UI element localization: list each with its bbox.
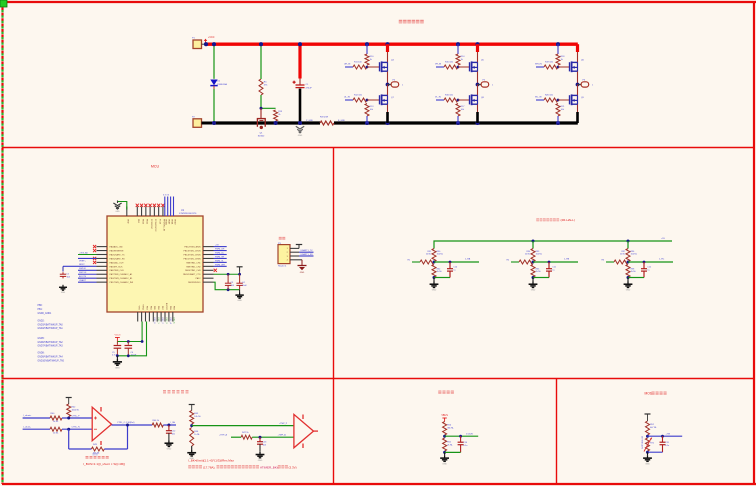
wire VDD rail pin (blue) [173,197,175,217]
svg-text:NRST: NRST [79,264,85,266]
svg-text:OSC_2: OSC_2 [161,317,163,323]
svg-text:PB1/TIM3_CH4/ADC_IN9: PB1/TIM3_CH4/ADC_IN9 [110,281,134,284]
wire vbus cap return (green) [445,451,461,453]
wire hall1 cap return (green) [434,277,450,279]
svg-text:Header 4: Header 4 [278,265,287,267]
wire +TW out (blue) [648,435,683,437]
svg-text:+TW: +TW [666,433,670,435]
resistor R33 hall pullup [531,249,535,262]
svg-text:VCC3: VCC3 [114,334,121,336]
capacitor C12 output filter [168,425,170,431]
transistor Q8 low-side [470,94,478,105]
svg-text:GND: GND [61,292,66,294]
wire VDD decouple top (green) [214,273,240,275]
wire hall3 cap return (green) [628,277,644,279]
node leg2 bottom gate [457,99,460,102]
wire leg2 upper drain (maroon) [477,52,479,85]
svg-text:10k NL: 10k NL [536,254,543,256]
svg-text:1u: 1u [647,269,649,271]
resistor R11 gate series top [353,65,367,69]
wire feedback right (blue) [104,448,127,450]
svg-text:PB11: PB11 [146,219,148,225]
svg-text:VDD1: VDD1 [170,219,172,225]
svg-text:PB13/TIM1_CH1N: PB13/TIM1_CH1N [184,250,201,252]
capacitor C11 hall filter [548,262,550,269]
wire diode branch upper (green) [213,44,215,79]
svg-text:R20 100: R20 100 [545,95,554,97]
resistor R10 gate pullup [365,54,369,65]
svg-text:I_shunt+: I_shunt+ [23,414,33,417]
svg-text:GND: GND [167,449,172,451]
no-ERC marker top pin 3 [140,204,143,207]
diode D1 (TVS) [210,80,217,90]
svg-text:R11 100: R11 100 [354,62,363,64]
power bar symbol temp [645,414,651,419]
wire right pin 1 (blue) [214,246,227,248]
node leg2 top gate [457,66,460,69]
section divider horizontal upper [2,147,754,149]
ground symbol reset cap [59,285,67,290]
ground symbol hall2 [529,282,538,288]
net stub I_shunt+ (blue) [23,417,50,419]
svg-text:VREF+: VREF+ [79,260,87,262]
svg-text:1u: 1u [552,269,554,271]
svg-text:CTRL_N: CTRL_N [72,427,81,429]
wire bus cap lower (thick black) [299,89,302,123]
wire GND bus left (thick black) [214,121,320,124]
junction on GND bus [556,121,560,125]
net stub I_shunt- (blue) [23,428,50,430]
IC U1 bottom pin 3 [145,312,147,322]
wire VDD rail pin (blue) [164,197,166,217]
svg-text:VBAT: VBAT [168,219,171,225]
IC U1 top pin 7 [158,207,160,217]
svg-text:PA1/RESERVE: PA1/RESERVE [110,249,125,252]
node temp mid [646,435,649,438]
svg-text:OSC_3: OSC_3 [165,317,167,323]
origin marker green square [0,0,7,7]
wire USART1_TX (blue) [299,251,314,253]
svg-text:+TMP_A: +TMP_A [278,433,287,436]
svg-text:OSC_5: OSC_5 [173,317,175,323]
ground symbol C13 [256,452,265,458]
net stub PWM_UL (blue) [345,99,353,101]
wire temp gnd stub [647,452,649,455]
svg-text:2k NL: 2k NL [447,444,453,446]
wire leg2 drain stub (thick red) [476,44,479,52]
wire SWCLK (blue) [78,273,97,275]
node vbus mid [443,435,446,438]
junction on VCC bus [298,42,302,46]
resistor R43 feedback [91,447,104,451]
wire V_BUS out (green) [445,435,479,437]
svg-text:2k NL: 2k NL [426,254,432,256]
svg-text:I_BUS=1:1([I_shunt × S(i)×36)]: I_BUS=1:1([I_shunt × S(i)×36)] [83,462,125,466]
outer frame top border [0,1,756,3]
junction on GND bus [212,121,216,125]
IC U1 left pin 10 [97,281,108,283]
svg-text:I_SH: I_SH [170,422,176,424]
svg-text:VDDA: VDDA [165,219,168,225]
transistor Q5 high-side [470,61,478,72]
resistor R30 hall pullup [432,249,436,262]
node leg1 bottom gate [366,99,369,102]
node leg3 top gate [557,66,560,69]
net stub +TRP_A (green) [231,436,241,438]
resistor R12 gate series bottom [353,98,367,102]
svg-text:VL_IN: VL_IN [435,97,441,99]
resistor R41 input- [50,427,62,431]
junction on VCC bus [556,42,560,46]
ground symbol top-left of U1 (chevrons) [113,201,121,210]
svg-text:R44 1k: R44 1k [153,420,161,422]
svg-text:470uF: 470uF [306,87,313,89]
wire GND bus right (thick black) [334,121,578,124]
resistor R51 vbus bottom [443,438,447,451]
svg-text:PWM_UH: PWM_UH [215,248,225,250]
IC U1 left pin 7 [97,269,108,271]
svg-text:10k NL: 10k NL [437,254,444,256]
IC U1 right pin 4 [203,257,214,259]
connector P3 pin 4 [290,259,299,261]
svg-text:USART: USART [79,279,87,282]
node hall3 bottom [627,276,630,279]
connector J2 phase pin [478,82,489,87]
junction on VCC bus [385,42,389,46]
wire gate to fet Q5 [458,66,470,68]
wire left pin4 (blue) [78,257,97,259]
wire USART1_RX (blue) [299,255,314,257]
IC U1 left pin 5 [97,261,108,263]
svg-text:PB0/TIM3_CH3/ADC_B1: PB0/TIM3_CH3/ADC_B1 [110,277,134,280]
svg-text:GND: GND [626,290,631,292]
svg-text:SI2302: SI2302 [258,135,265,137]
wire gate to fet Q9 [558,99,570,101]
svg-text:PB15/TIM1_CH3N: PB15/TIM1_CH3N [184,258,201,260]
node hall2 bottom [532,276,535,279]
IC U1 right pin 3 [203,254,214,256]
svg-text:+5V: +5V [215,245,219,247]
no-ERC marker top pin 2 [136,204,139,207]
wire R2 to bus [275,121,277,123]
wire gate to fet Q4 [367,66,380,68]
resistor R36 hall pullup [626,249,630,262]
node comp filter [259,436,262,439]
svg-text:PC14/OSC32: PC14/OSC32 [154,219,156,232]
svg-text:(17.78A),: (17.78A), [203,465,216,469]
node hall3 mid [627,261,630,264]
resistor R35 hall pulldown [531,265,535,278]
ground symbol vbus [440,455,449,461]
no-ERC marker left pin 5 [93,261,96,264]
svg-text:PF0/OSC_IN: PF0/OSC_IN [163,219,165,231]
IC U1 right pin 1 [203,246,214,248]
svg-text:PA12: PA12 [196,277,202,280]
svg-text:36k NL: 36k NL [447,427,454,429]
wire divider out (green) [192,425,294,427]
IC U1 left pin 3 [97,254,108,256]
resistor R16 gate series bottom [444,98,458,102]
svg-text:BOOT0: BOOT0 [165,303,167,311]
IC U1 right pin 2 [203,250,214,252]
resistor R52 temp pullup [646,421,650,435]
wire right pin 5 (blue) [214,261,227,263]
connector J1 phase pin [388,82,399,87]
IC U1 top pin 3 [141,207,143,217]
svg-text:PA10/TIM1_CH3: PA10/TIM1_CH3 [185,269,201,272]
wire pulldown to bus [557,116,559,123]
capacitor C3 [227,274,229,281]
svg-text:10k NL: 10k NL [631,254,638,256]
port P1 pin wire [202,43,207,45]
junction on VCC bus [259,42,263,46]
svg-text:R47 1k: R47 1k [242,432,250,434]
resistor R50 vbus top [443,422,447,436]
wire bar to R52 [647,419,649,422]
title hall sensor section (光电对管接口) [536,219,539,222]
capacitor C6 [127,342,129,345]
wire bar to R42 [68,402,70,404]
wire VDD pin to gnd (green) [118,202,127,210]
svg-text:2k NL: 2k NL [525,254,531,256]
svg-text:PA8/TIM1_CH1: PA8/TIM1_CH1 [186,261,201,264]
wire bar to rail [239,267,241,274]
svg-text:PWM_VH: PWM_VH [215,256,225,258]
node leg1 phase output [386,83,390,87]
wire right pin 4 (blue) [214,257,227,259]
junction hall3 cap top [643,261,646,264]
power bar symbol decouple [237,267,243,272]
svg-text:UL_IN: UL_IN [344,97,350,99]
connector J3 phase pin [578,82,589,87]
svg-text:R16 100: R16 100 [445,95,454,97]
connector P3 pin 3 [290,255,299,257]
svg-text:1k NL: 1k NL [536,271,542,273]
transistor Q7 low-side [380,94,388,105]
ground symbol C12 [164,441,173,447]
svg-text:PA11/USART_CTS: PA11/USART_CTS [183,273,201,276]
resistor R40 input+ [50,416,62,420]
IC U1 bottom pin 5 [152,312,154,322]
net stub PWM_WH (blue) [536,66,544,68]
IC U1 top pin 8 [162,207,164,217]
IC U1 bottom pin 10 [172,312,174,322]
junction crystal a [127,340,130,343]
svg-text:GND9/VBAT/WKUP_TA4: GND9/VBAT/WKUP_TA4 [38,355,64,358]
wire feedback up (blue) [127,425,129,449]
svg-text:USART1_TX: USART1_TX [301,249,314,252]
wire feedback down (blue) [68,429,70,449]
svg-text:PB1:: PB1: [38,309,43,311]
no-ERC marker right pin 7 [214,269,217,272]
junction crystal b [141,340,144,343]
capacitor C2 reset [60,272,66,278]
connector P3 pin 2 [290,251,299,253]
svg-text:PA9/TIM1_CH2: PA9/TIM1_CH2 [186,265,201,268]
wire NRST cap branch [62,266,64,271]
annotation opamp gain line1 (运放采样电路) [86,456,89,459]
IC U1 bottom pin 2 [141,312,143,322]
resistor R13 gate pulldown [365,104,369,117]
svg-text:P_GND: P_GND [306,120,313,122]
transistor Q6 high-side [570,61,578,72]
junction on VCC bus [204,42,208,46]
svg-text:GND: GND [300,272,305,274]
junction on GND bus [385,121,389,125]
wire feedback bottom (blue) [69,448,92,450]
wire leg3 gate pullup (blue) [557,44,559,54]
node leg3 bottom gate [557,99,560,102]
wire crystal rail bottom (green) [117,322,146,356]
wire divider gnd stub [191,446,193,450]
svg-text:100k NL: 100k NL [72,410,81,412]
op-amp U3 comparator [294,414,318,448]
svg-text:VDD2: VDD2 [173,219,175,225]
svg-text:R19 100: R19 100 [545,62,554,64]
wire leg2 gate pullup (blue) [457,44,459,54]
outer frame right border [753,2,755,485]
resistor R17 gate pulldown [456,104,460,117]
node leg3 phase output [576,83,580,87]
junction on VCC bus [212,42,216,46]
node hall1 bottom [433,276,436,279]
net stub PWM_UH (blue) [345,66,353,68]
svg-text:+3V3_AD: +3V3_AD [79,251,88,254]
wire VDD rail pin (blue) [170,197,172,217]
resistor R32 hall pulldown [432,265,436,278]
resistor R34 hall series [519,260,533,264]
junction on VCC bus [475,42,479,46]
svg-text:GND: GND [298,135,303,137]
svg-text:BOOT0: BOOT0 [79,276,87,278]
net stub PWM_WL (blue) [536,99,544,101]
wire opamp output (blue) [112,424,153,426]
no-ERC marker left pin 1 [93,245,96,248]
svg-text:STM32F030C8T6: STM32F030C8T6 [179,213,197,215]
wire hall3 pullup top (green) [627,241,629,249]
wire +5V bus (green) [434,241,672,249]
svg-text:PA3/USART_RX: PA3/USART_RX [110,257,126,260]
svg-text:WL_IN: WL_IN [535,97,542,99]
IC U1 left pin 4 [97,257,108,259]
wire temp cap return (blue) [648,451,663,453]
IC U1 bottom pin 9 [168,312,170,322]
svg-text:PA2/USART_TX: PA2/USART_TX [110,253,126,256]
capacitor C14 vbus [460,436,462,442]
IC U1 bottom pin 4 [148,312,150,322]
IC U1 right pin 6 [203,265,214,267]
svg-text:1u: 1u [453,269,455,271]
svg-text:GND: GND [237,300,242,302]
svg-text:OSC_0: OSC_0 [153,317,155,323]
svg-text:PA5/SPI_SCK: PA5/SPI_SCK [110,265,124,268]
svg-text:GND: GND [258,460,263,462]
title current sense section (母线电流检测) [163,390,166,393]
node hall2 mid [532,261,535,264]
svg-text:WH_IN: WH_IN [535,64,542,66]
no-ERC marker top pin 4 [144,204,147,207]
junction on GND bus [475,121,479,125]
svg-text:R12 100: R12 100 [354,95,363,97]
net label above formula [93,453,95,455]
IC U1 right pin 10 [203,281,214,283]
svg-text:1_HC: 1_HC [659,259,665,261]
net stub hall2 input (green) [511,261,519,263]
wire pulldown to bus [457,116,459,123]
transistor Q4 high-side [380,61,388,72]
title bus voltage section (母线电压) [438,391,441,394]
svg-text:R15 100: R15 100 [445,62,454,64]
junction decouple c [227,288,230,291]
junction crystal c [116,354,119,357]
svg-text:GND3/VBAT/WKUP_TA0: GND3/VBAT/WKUP_TA0 [38,323,64,326]
wire leg3 lower drain (maroon) [577,85,579,113]
IC U1 right pin 9 [203,277,214,279]
node hall1 mid [433,261,436,264]
wire hall2 cap return (green) [533,277,549,279]
svg-text:I_shunt-: I_shunt- [23,425,32,428]
resistor R14 gate pullup [456,54,460,65]
resistor R46 divider bottom [190,428,194,447]
no-ERC marker top pin 7 [157,204,160,207]
ground symbol bus cap (chevrons) [296,126,304,133]
wire hall3 gnd stub [627,278,629,282]
svg-text:10uF: 10uF [242,285,247,287]
junction decouple b [238,273,241,276]
resistor R15 gate series top [444,65,458,69]
ground symbol crystal [116,356,118,359]
IC U1 top pin 6 [153,207,155,217]
svg-text:2k NL: 2k NL [620,254,626,256]
resistor R44 output series [152,423,163,427]
svg-text:VDD: VDD [127,219,129,224]
svg-text:1k NL: 1k NL [631,271,637,273]
svg-text:1_HB: 1_HB [564,259,570,261]
wire output to node (blue) [163,424,176,426]
section divider horizontal lower [2,378,754,380]
svg-text:OSC_1: OSC_1 [157,317,159,323]
resistor R2 [274,110,278,121]
ground symbol decouple [239,290,241,293]
svg-text:GND: GND [645,463,650,465]
ground symbol serial (dark red) [299,259,302,261]
title power drive section (功率驱动电路) [399,20,403,24]
IC U1 bottom pin 6 [156,312,158,322]
junction temp cap top [661,435,664,438]
wire +3V3_AD (green) [78,254,97,256]
wire VCC bus (thick red) [206,43,578,46]
svg-text:4k7 NL: 4k7 NL [650,427,657,429]
capacitor C13 comp filter [259,437,261,442]
resistor R45 divider top [190,411,194,425]
net stub hall1 input (green) [412,261,420,263]
ground symbol divider [187,450,196,456]
resistor R21 gate pulldown [556,104,560,117]
wire pin VSS down (green) [141,322,143,342]
svg-text:P6KE18A: P6KE18A [217,83,227,86]
node R2 top [260,107,263,110]
IC U1 top pin 4 [145,207,147,217]
resistor R18 gate pullup [556,54,560,65]
resistor R3 shunt 5mR [320,121,334,125]
svg-text:PB12/TIM1_BKIN: PB12/TIM1_BKIN [184,247,201,249]
wire gate to fet Q6 [558,66,570,68]
svg-text:PA0/ADC_IN0: PA0/ADC_IN0 [110,246,124,249]
wire leg3 source stub (thick black) [576,112,579,123]
svg-text:GND10/VBAT/WKUP_TA5: GND10/VBAT/WKUP_TA5 [38,359,65,362]
junction on GND bus [365,121,369,125]
wire VSS decouple bottom (green) [214,282,240,290]
